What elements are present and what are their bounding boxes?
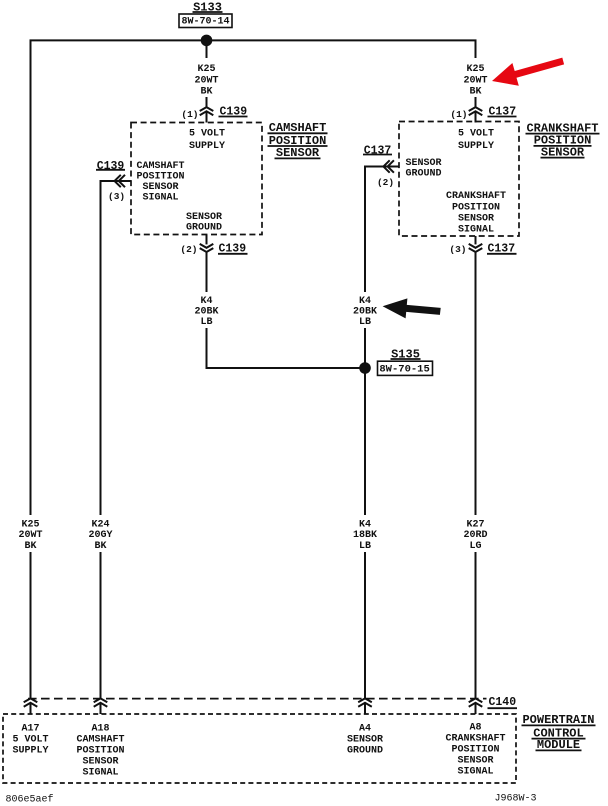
svg-text:(2): (2) (180, 244, 197, 255)
svg-text:K4: K4 (359, 520, 371, 531)
svg-text:CAMSHAFT: CAMSHAFT (136, 161, 184, 172)
connector C140 chevrons pin A4 (358, 698, 372, 702)
svg-text:POSITION: POSITION (451, 745, 499, 756)
svg-text:8W-70-15: 8W-70-15 (379, 364, 429, 376)
svg-text:SENSOR: SENSOR (142, 182, 178, 193)
svg-text:20BK: 20BK (194, 307, 218, 318)
svg-text:SENSOR: SENSOR (186, 212, 222, 223)
connector C137 pin 2 chevrons (383, 160, 389, 172)
svg-text:K25: K25 (466, 64, 484, 75)
connector C140 chevrons pin A17 (24, 698, 38, 702)
svg-text:SIGNAL: SIGNAL (142, 192, 178, 203)
svg-text:J968W-3: J968W-3 (495, 794, 537, 805)
svg-text:20WT: 20WT (18, 530, 42, 541)
S135 reference box 8W-70-15 (378, 361, 433, 375)
wire label K25 20WT BK (center top) (187, 58, 226, 97)
svg-text:CRANKSHAFT: CRANKSHAFT (445, 734, 505, 745)
svg-text:SIGNAL: SIGNAL (82, 768, 118, 779)
camshaft position sensor box (131, 123, 262, 235)
connector C140 dashed line (28, 698, 487, 700)
svg-text:K4: K4 (200, 296, 212, 307)
svg-text:806e5aef: 806e5aef (6, 794, 54, 806)
svg-text:POSITION: POSITION (76, 746, 124, 757)
svg-text:POSITION: POSITION (452, 202, 500, 213)
svg-text:SENSOR: SENSOR (82, 757, 118, 768)
svg-text:LB: LB (359, 541, 371, 552)
svg-text:8W-70-14: 8W-70-14 (181, 17, 229, 28)
wire crank signal from C137 to PCM (475, 252, 477, 698)
wire label K4 20BK LB (left mid) (188, 292, 225, 328)
svg-text:K4: K4 (359, 296, 371, 307)
svg-text:GROUND: GROUND (347, 746, 383, 757)
connector C139 pin 2 chevrons (206, 235, 208, 245)
wire cam signal from C139 to PCM (101, 181, 132, 698)
svg-text:A8: A8 (469, 723, 481, 734)
svg-text:(2): (2) (377, 177, 394, 188)
svg-text:(1): (1) (181, 109, 198, 120)
connector C137 pin 3 chevrons (475, 236, 477, 244)
svg-text:(3): (3) (108, 191, 125, 202)
connector C137 pin 1 chevrons (469, 107, 483, 111)
red callout arrow (492, 58, 564, 86)
connector C139 pin 3 chevrons (115, 175, 121, 187)
wire label K4 20BK LB (right mid) (347, 292, 384, 328)
svg-text:C140: C140 (489, 696, 517, 709)
connector C139 pin 1 chevrons (200, 107, 214, 111)
svg-text:SENSOR: SENSOR (347, 735, 383, 746)
svg-text:20GY: 20GY (88, 530, 112, 541)
svg-text:GROUND: GROUND (406, 168, 442, 179)
svg-text:POSITION: POSITION (136, 172, 184, 183)
svg-text:5 VOLT: 5 VOLT (12, 735, 48, 746)
svg-text:SUPPLY: SUPPLY (12, 746, 48, 757)
svg-text:SENSOR: SENSOR (406, 158, 442, 169)
svg-text:A17: A17 (21, 724, 39, 735)
wire label K4 18BK LB (346, 515, 384, 552)
wire cam ground run to S135 (207, 252, 366, 368)
svg-text:20WT: 20WT (194, 75, 218, 86)
wire left K25 supply vertical (30, 40, 32, 698)
svg-text:K25: K25 (197, 64, 215, 75)
wire cam 5V supply drop (206, 40, 208, 107)
svg-text:20WT: 20WT (463, 75, 487, 86)
wire top bus from S133 (30, 39, 477, 41)
svg-text:LB: LB (359, 317, 371, 328)
svg-text:SENSOR: SENSOR (458, 214, 494, 225)
svg-text:20BK: 20BK (353, 307, 377, 318)
S133 reference box 8W-70-14 (179, 14, 232, 28)
svg-text:BK: BK (469, 87, 481, 98)
svg-text:20RD: 20RD (463, 530, 487, 541)
svg-text:5 VOLT: 5 VOLT (189, 129, 225, 140)
svg-text:SIGNAL: SIGNAL (457, 767, 493, 778)
svg-text:BK: BK (94, 541, 106, 552)
svg-text:C139: C139 (97, 160, 125, 173)
svg-text:SIGNAL: SIGNAL (458, 225, 494, 236)
svg-text:A18: A18 (91, 724, 109, 735)
svg-text:GROUND: GROUND (186, 223, 222, 234)
svg-text:LB: LB (200, 317, 212, 328)
wire crank 5V supply drop (475, 40, 477, 107)
svg-text:LG: LG (469, 541, 481, 552)
splice node S135 junction dot (359, 362, 371, 374)
connector C140 chevrons pin A18 (94, 698, 108, 702)
crankshaft position sensor box (399, 122, 519, 237)
svg-text:K24: K24 (91, 520, 109, 531)
svg-text:(3): (3) (449, 244, 466, 255)
svg-text:BK: BK (24, 541, 36, 552)
wire label K27 20RD LG (457, 515, 495, 552)
svg-text:BK: BK (200, 87, 212, 98)
svg-text:18BK: 18BK (353, 530, 377, 541)
splice node S133 junction dot (201, 35, 213, 47)
wire crank ground from C137 through S135 to PCM (365, 167, 399, 699)
connector C140 chevrons pin A8 (469, 698, 483, 702)
wire label K25 20WT BK (right top) (456, 58, 495, 97)
svg-text:SENSOR: SENSOR (457, 756, 493, 767)
svg-text:5 VOLT: 5 VOLT (458, 129, 494, 140)
powertrain control module box (3, 714, 516, 783)
svg-text:(1): (1) (450, 109, 467, 120)
svg-text:SUPPLY: SUPPLY (189, 141, 225, 152)
svg-text:K27: K27 (466, 520, 484, 531)
svg-text:A4: A4 (359, 724, 371, 735)
svg-text:CAMSHAFT: CAMSHAFT (76, 735, 124, 746)
svg-text:CRANKSHAFT: CRANKSHAFT (446, 191, 506, 202)
svg-text:K25: K25 (21, 520, 39, 531)
black callout arrow (383, 298, 441, 318)
svg-text:SUPPLY: SUPPLY (458, 141, 494, 152)
wire label K25 20WT BK (left lower) (12, 515, 50, 552)
wire label K24 20GY BK (81, 515, 119, 552)
